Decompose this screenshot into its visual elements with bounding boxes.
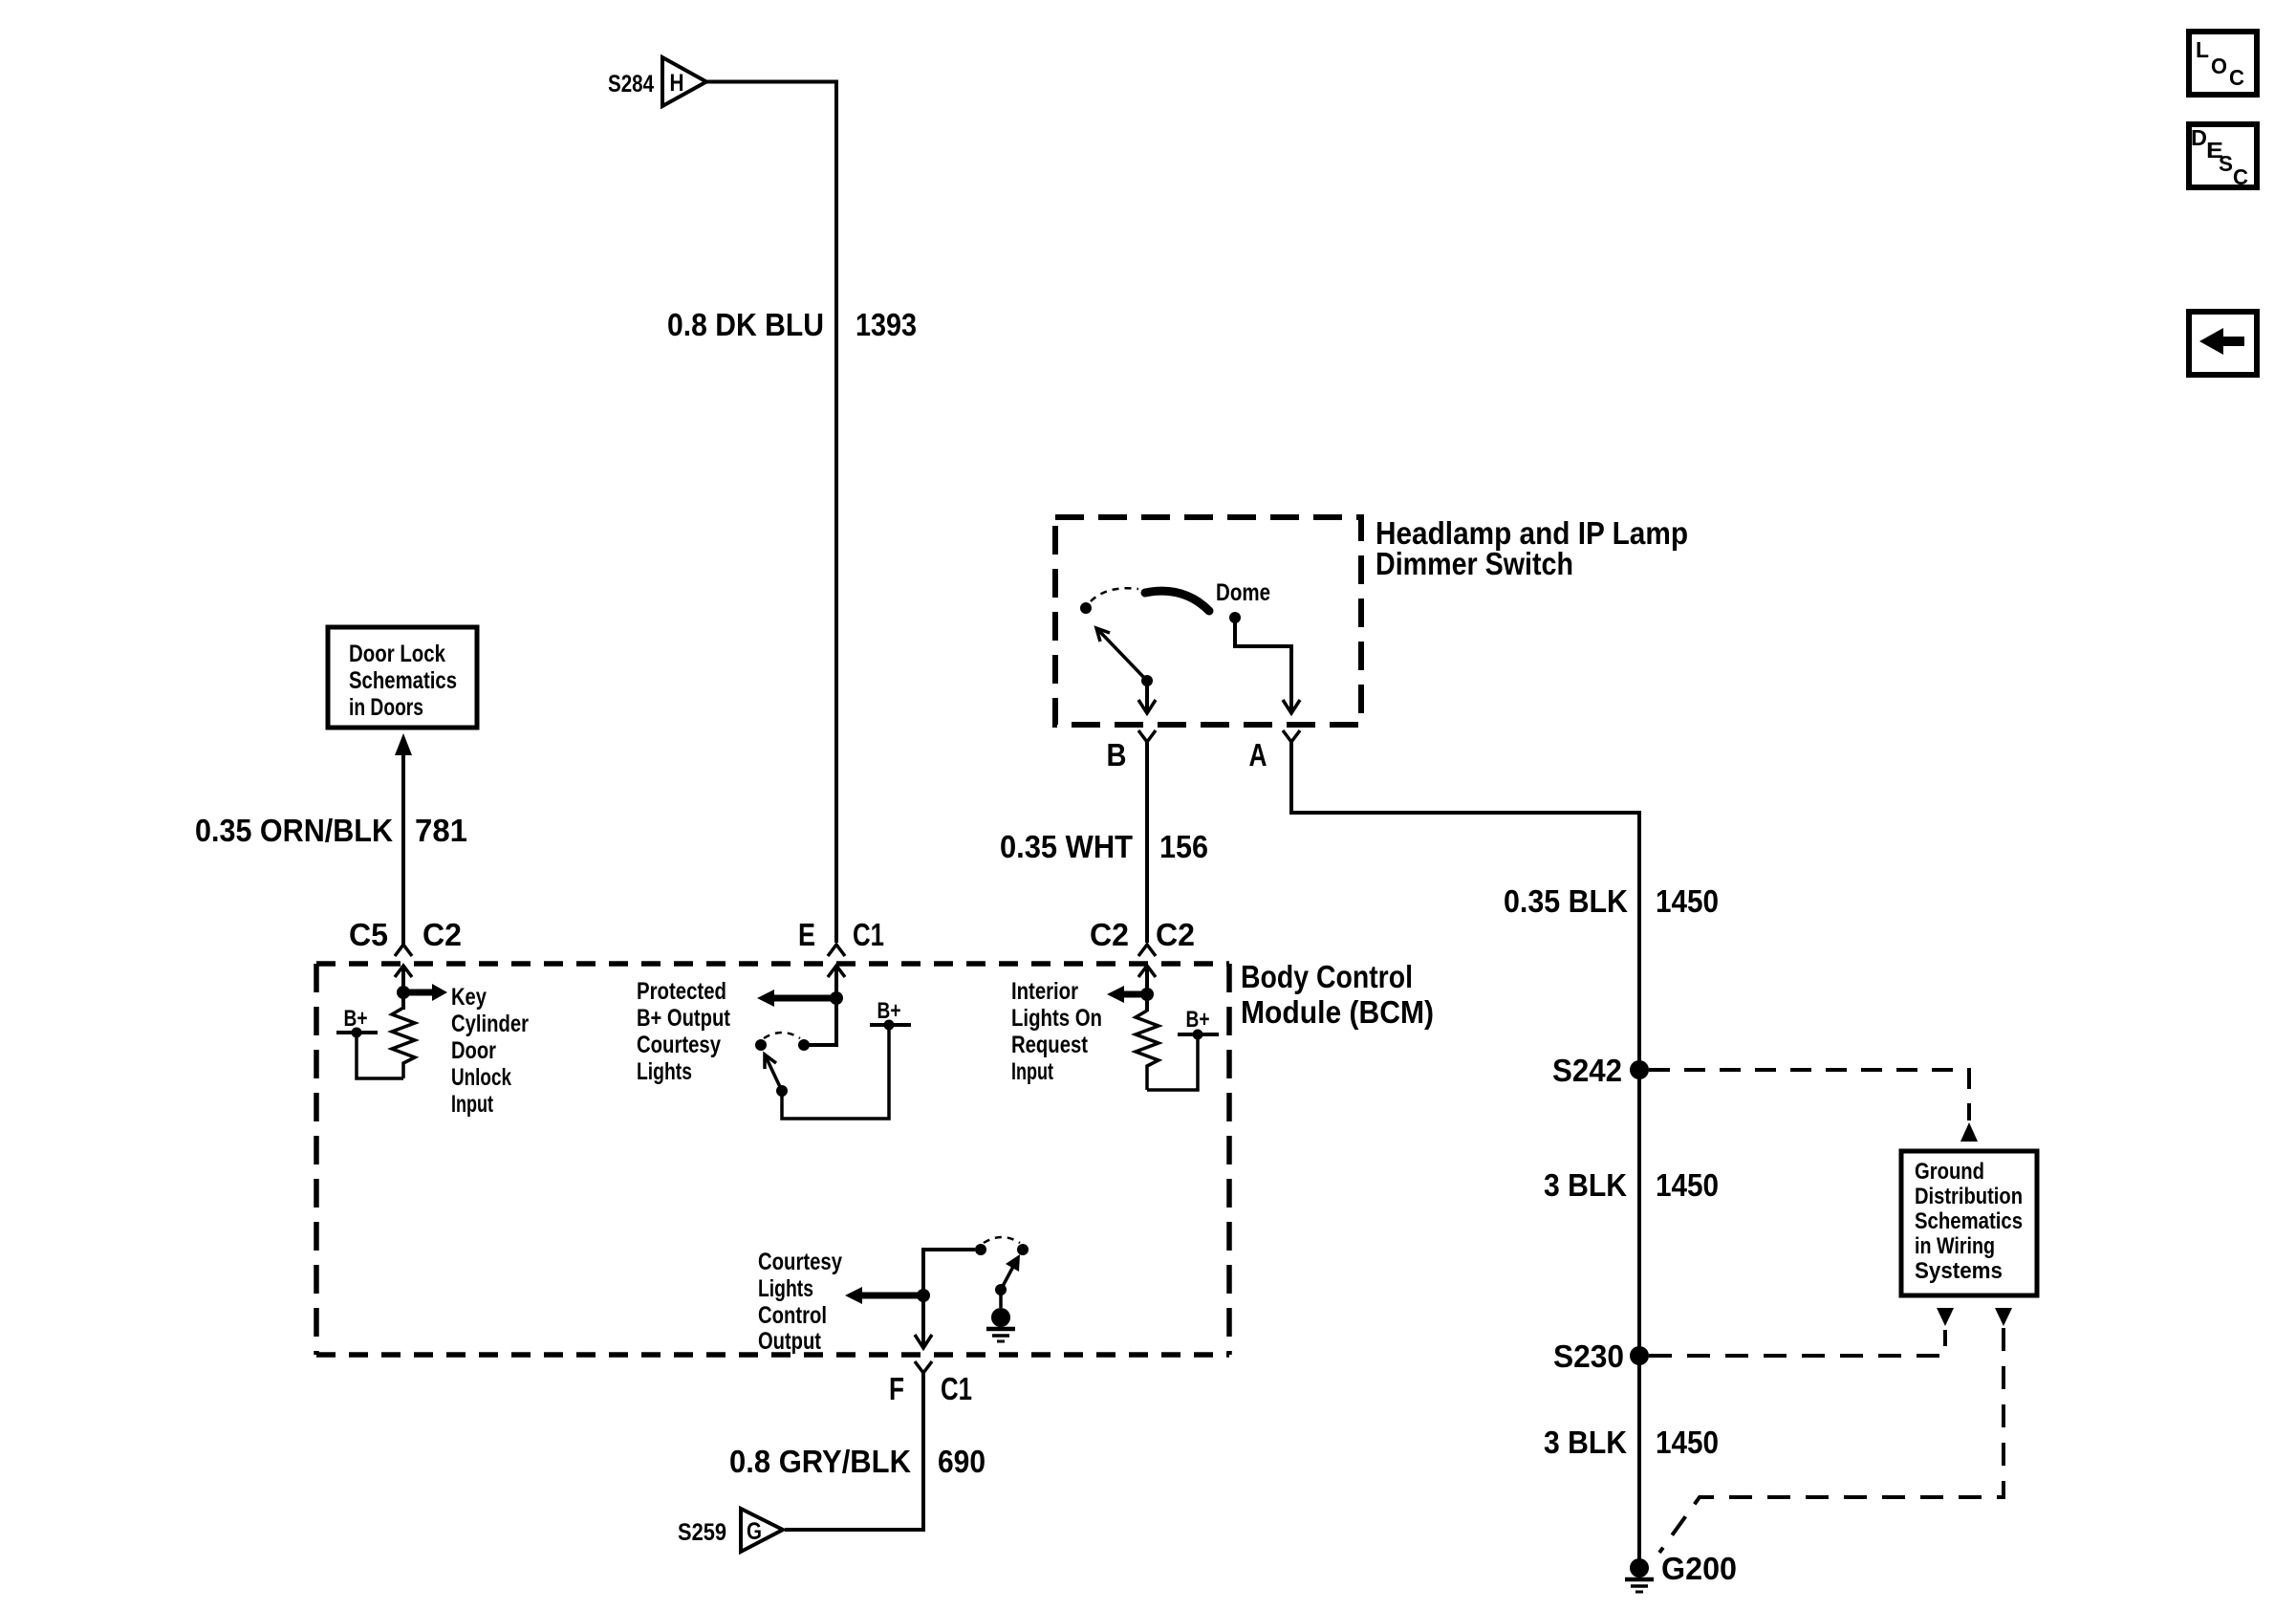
svg-text:B: B [1107, 737, 1127, 772]
svg-text:Lights: Lights [637, 1058, 692, 1085]
value label 0.8 DK BLU 1393 [667, 307, 917, 342]
B+ supply key section [336, 1006, 378, 1038]
svg-text:B+: B+ [1186, 1007, 1210, 1033]
svg-text:0.35 WHT: 0.35 WHT [1000, 829, 1133, 864]
svg-text:C2: C2 [422, 917, 462, 952]
svg-text:781: 781 [415, 813, 467, 848]
svg-text:Unlock: Unlock [451, 1064, 511, 1091]
wire 0.35 ORN/BLK up to Door Lock box [395, 733, 412, 946]
title Body Control Module (BCM) [1241, 959, 1434, 1030]
svg-text:S284: S284 [608, 71, 654, 98]
switch contacts courtesy output [975, 1244, 986, 1255]
title Headlamp and IP Lamp Dimmer Switch [1375, 515, 1688, 581]
Headlamp and IP Lamp Dimmer Switch box [1055, 517, 1361, 725]
wire protected B+ output [806, 967, 836, 1045]
svg-text:H: H [670, 70, 684, 97]
svg-text:S230: S230 [1553, 1338, 1624, 1374]
svg-text:E: E [798, 917, 815, 952]
svg-text:O: O [2211, 54, 2227, 78]
B+ supply interior section [1178, 1007, 1219, 1040]
connector C2 / C2 at BCM [1090, 917, 1195, 956]
svg-text:D: D [2191, 125, 2207, 150]
svg-text:0.35 BLK: 0.35 BLK [1504, 883, 1628, 919]
svg-text:1450: 1450 [1656, 1425, 1719, 1460]
value label 0.35 ORN/BLK 781 [195, 813, 467, 848]
connector B below dimmer [1107, 730, 1157, 772]
label Key Cylinder Door Unlock Input [451, 984, 529, 1118]
svg-text:Dome: Dome [1216, 579, 1270, 606]
svg-text:G: G [747, 1518, 762, 1545]
arrow into S242 from ground box [1960, 1122, 1978, 1142]
svg-text:3 BLK: 3 BLK [1544, 1167, 1627, 1203]
svg-text:A: A [1249, 737, 1267, 772]
label Courtesy Lights Control Output [758, 1249, 842, 1355]
entry arrow at C2/C2 [1138, 966, 1156, 977]
label Interior Lights On Request Input [1011, 978, 1102, 1085]
connector F / C1 below BCM [889, 1361, 972, 1406]
svg-text:C5: C5 [349, 917, 388, 952]
junction dot protected output [830, 991, 843, 1005]
wire 0.8 DK BLU from S284 to BCM pin E [706, 82, 836, 944]
svg-text:C1: C1 [941, 1371, 972, 1406]
dashed throw arc courtesy [984, 1237, 1020, 1243]
label 3 BLK 1450 lower [1544, 1425, 1719, 1460]
svg-text:690: 690 [938, 1444, 986, 1479]
wire dome contact to pin A [1235, 618, 1291, 711]
ground inside BCM [986, 1290, 1015, 1341]
B+ supply protected section [870, 998, 911, 1031]
label Protected B+ Output Courtesy Lights [637, 978, 731, 1085]
svg-text:Lights: Lights [758, 1275, 813, 1302]
svg-text:Protected: Protected [637, 978, 726, 1005]
label 3 BLK 1450 upper [1544, 1167, 1719, 1203]
thick arrow to Courtesy text [845, 1287, 923, 1304]
svg-text:Systems: Systems [1915, 1258, 2003, 1284]
svg-text:3 BLK: 3 BLK [1544, 1425, 1627, 1460]
svg-text:Schematics: Schematics [349, 667, 457, 694]
svg-text:Door: Door [451, 1037, 496, 1064]
svg-text:Cylinder: Cylinder [451, 1011, 529, 1037]
svg-text:C: C [2233, 164, 2248, 189]
splice S242 [1552, 1053, 1649, 1088]
ground G200 [1625, 1551, 1737, 1592]
wire B+ to resistor bottom [357, 1033, 403, 1078]
splice S259 [678, 1509, 783, 1552]
wire 0.35 WHT from B to BCM [1145, 742, 1149, 943]
arrowhead at A exit [1283, 700, 1300, 713]
value label 0.35 WHT 156 [1000, 829, 1208, 864]
svg-text:Ground: Ground [1915, 1159, 1984, 1185]
dome contact dot [1229, 612, 1241, 623]
svg-text:C2: C2 [1090, 917, 1129, 952]
svg-text:Request: Request [1011, 1032, 1089, 1058]
svg-text:Courtesy: Courtesy [637, 1032, 721, 1058]
svg-text:Courtesy: Courtesy [758, 1249, 842, 1275]
svg-text:Schematics: Schematics [1915, 1208, 2023, 1234]
svg-text:Body Control: Body Control [1241, 959, 1413, 994]
wire resistor bottom to B+ right [1147, 1034, 1198, 1090]
value label 0.8 GRY/BLK 690 [729, 1444, 986, 1479]
svg-text:Output: Output [758, 1328, 822, 1355]
arrow below box right [1995, 1308, 2012, 1326]
splice S284 [608, 57, 706, 106]
dimmer wiper dashed arc [1091, 588, 1138, 601]
switch lever with arrow [1096, 628, 1153, 686]
svg-text:Input: Input [451, 1091, 493, 1118]
arrow to Key text [403, 984, 447, 1001]
svg-text:Door Lock: Door Lock [349, 641, 445, 667]
Ground Distribution Schematics box [1901, 1151, 2037, 1295]
entry arrow at C5/C2 [395, 966, 412, 977]
dashed wire S230 to ground box [1649, 1330, 1945, 1356]
dashed wire ground box to G200 [1659, 1328, 2004, 1553]
svg-text:C1: C1 [853, 917, 884, 952]
wire lever to pin B [1145, 681, 1149, 711]
junction dot key input [397, 986, 410, 999]
svg-text:Distribution: Distribution [1915, 1184, 2023, 1209]
splice S230 [1553, 1338, 1649, 1374]
svg-text:Module (BCM): Module (BCM) [1241, 994, 1434, 1030]
svg-text:B+ Output: B+ Output [637, 1005, 731, 1032]
connector E / C1 at BCM [798, 917, 884, 956]
junction dot interior input [1140, 988, 1154, 1001]
svg-text:Input: Input [1011, 1058, 1053, 1085]
thick arrow to Interior text [1107, 986, 1147, 1003]
resistor interior input pull-up [1136, 1011, 1159, 1090]
svg-text:1393: 1393 [856, 307, 917, 342]
thick arrow to Protected text [757, 990, 836, 1007]
svg-text:in Doors: in Doors [349, 694, 423, 721]
svg-text:Key: Key [451, 984, 487, 1011]
dimmer pivot dot [1080, 602, 1092, 614]
svg-text:S259: S259 [678, 1519, 726, 1546]
svg-text:1450: 1450 [1656, 1167, 1719, 1203]
svg-text:F: F [889, 1371, 904, 1406]
svg-text:in Wiring: in Wiring [1915, 1233, 1995, 1259]
svg-text:Control: Control [758, 1302, 827, 1329]
svg-text:156: 156 [1159, 829, 1208, 864]
wire interior lights input [1145, 967, 1149, 1012]
junction dot courtesy output [917, 1289, 930, 1302]
switch lever protected output [765, 1055, 788, 1097]
resistor key cylinder pull-up [392, 1008, 415, 1078]
dimmer rheostat thick arc [1145, 591, 1209, 611]
arrowhead at B exit [1138, 700, 1156, 713]
connector C5 / C2 at BCM [349, 917, 462, 956]
svg-text:0.35 ORN/BLK: 0.35 ORN/BLK [195, 813, 393, 848]
back arrow button [2189, 312, 2257, 375]
svg-text:0.8 DK BLU: 0.8 DK BLU [667, 307, 824, 342]
wire 0.8 GRY/BLK from F to S259 [785, 1373, 923, 1530]
svg-text:C: C [2229, 65, 2244, 90]
svg-text:L: L [2196, 37, 2209, 62]
arrow below box left [1937, 1308, 1954, 1326]
value label 0.35 BLK 1450 [1504, 883, 1719, 919]
svg-text:S242: S242 [1552, 1053, 1622, 1088]
svg-text:S: S [2219, 151, 2233, 176]
switch contacts protected output [798, 1039, 810, 1051]
svg-text:Dimmer Switch: Dimmer Switch [1375, 546, 1573, 581]
svg-text:Lights On: Lights On [1011, 1005, 1102, 1032]
wire 0.35 BLK from A to ground net [1291, 742, 1639, 1563]
svg-text:0.8 GRY/BLK: 0.8 GRY/BLK [729, 1444, 911, 1479]
LOC button box [2189, 32, 2257, 95]
wire lever to B+ center [782, 1025, 889, 1119]
dashed wire S242 to ground box top [1649, 1070, 1969, 1120]
svg-text:C2: C2 [1156, 917, 1195, 952]
svg-text:G200: G200 [1661, 1551, 1737, 1586]
svg-text:1450: 1450 [1656, 883, 1719, 919]
dashed throw arc [764, 1033, 800, 1038]
wire key cylinder input [401, 967, 405, 1010]
switch lever courtesy with arrow [995, 1254, 1020, 1295]
DESC button box [2189, 124, 2257, 189]
entry arrow at E/C1 [828, 966, 845, 977]
Door Lock Schematics in Doors box [328, 627, 477, 728]
wire courtesy output [923, 1250, 975, 1348]
exit arrow at F/C1 [915, 1335, 932, 1348]
connector A below dimmer [1249, 730, 1301, 772]
Body Control Module BCM box [316, 964, 1229, 1355]
svg-text:Interior: Interior [1011, 978, 1078, 1005]
